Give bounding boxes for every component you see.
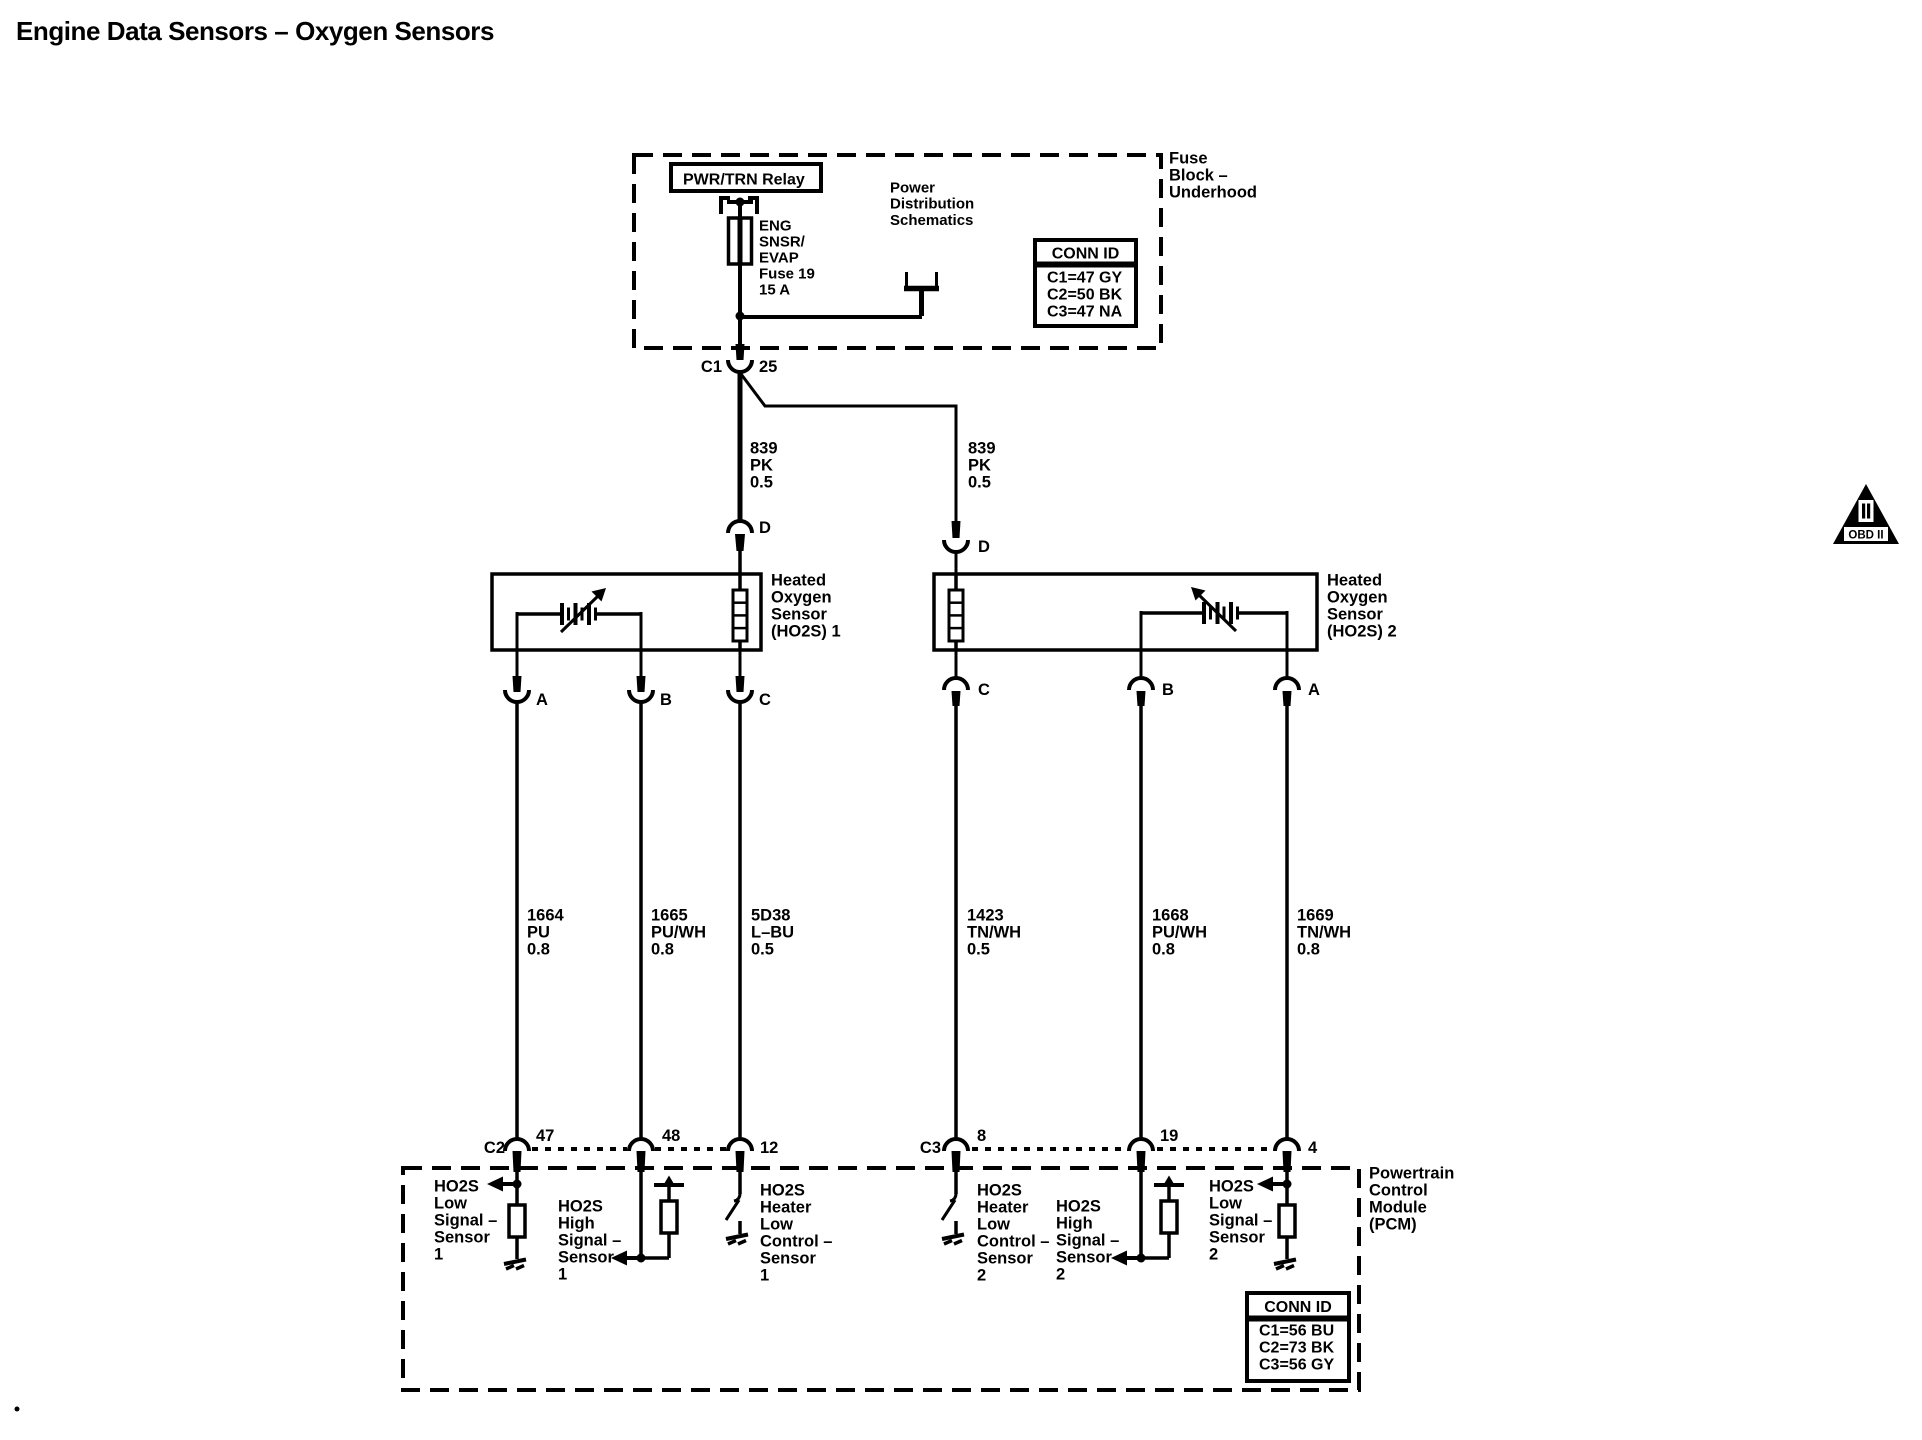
svg-text:48: 48	[662, 1127, 680, 1145]
svg-text:C3: C3	[920, 1139, 941, 1157]
svg-text:CONN ID: CONN ID	[1052, 246, 1120, 263]
connector pin 48 (PCM)	[629, 1127, 680, 1172]
label heated oxygen sensor 1	[771, 572, 841, 641]
svg-text:1669: 1669	[1297, 907, 1334, 925]
svg-text:Underhood: Underhood	[1169, 184, 1257, 202]
HO2S 2 box	[934, 574, 1317, 650]
svg-text:C1=47 GY: C1=47 GY	[1047, 270, 1122, 287]
svg-text:C3=47 NA: C3=47 NA	[1047, 304, 1123, 321]
switch (heater low control 1)	[726, 1193, 740, 1220]
label HO2S high signal sensor 2	[1056, 1198, 1119, 1284]
node junction 4	[1283, 1180, 1292, 1189]
connector pin 19 (PCM)	[1129, 1127, 1178, 1172]
node junction 48	[637, 1254, 646, 1263]
svg-text:Engine Data Sensors – Oxygen S: Engine Data Sensors – Oxygen Sensors	[16, 16, 494, 46]
connector D (HO2S 2)	[944, 521, 990, 575]
svg-text:Heated: Heated	[771, 572, 826, 590]
connector A (HO2S2)	[1275, 650, 1320, 706]
svg-text:B: B	[660, 691, 672, 709]
svg-text:Signal –: Signal –	[1209, 1212, 1272, 1230]
connector C (HO2S2)	[944, 650, 990, 706]
svg-text:47: 47	[536, 1127, 554, 1145]
conn id table (PCM)	[1247, 1293, 1349, 1381]
relay contact symbol	[721, 196, 757, 218]
svg-text:HO2S: HO2S	[1056, 1198, 1101, 1216]
wire 1664 PU	[515, 703, 519, 1140]
svg-text:Low: Low	[1209, 1195, 1242, 1213]
svg-text:Control –: Control –	[760, 1233, 832, 1251]
svg-text:5D38: 5D38	[751, 907, 790, 925]
svg-text:HO2S: HO2S	[977, 1182, 1022, 1200]
ground (heater low control 1)	[726, 1235, 748, 1245]
conn id table (fuse block)	[1035, 240, 1136, 326]
svg-text:Sensor: Sensor	[977, 1250, 1034, 1268]
ground (low signal 1)	[504, 1260, 526, 1270]
svg-text:HO2S: HO2S	[760, 1182, 805, 1200]
label wire 5D38 L-BU 0.5	[751, 907, 794, 959]
label HO2S high signal sensor 1	[558, 1198, 621, 1284]
wire 5D38 L-BU	[738, 703, 742, 1140]
connector pin 47 (PCM)	[505, 1127, 554, 1172]
label HO2S heater low control sensor 2	[977, 1182, 1049, 1285]
svg-text:Sensor: Sensor	[1209, 1229, 1266, 1247]
ground (heater low control 2)	[942, 1235, 964, 1245]
svg-text:0.8: 0.8	[651, 941, 674, 959]
label wire 1423 TN/WH 0.5	[967, 907, 1021, 959]
node junction 47	[513, 1180, 522, 1189]
svg-text:Sensor: Sensor	[760, 1250, 817, 1268]
svg-text:Sensor: Sensor	[1327, 606, 1384, 624]
voltage supply symbol (high signal 2)	[1154, 1176, 1184, 1202]
svg-text:15 A: 15 A	[759, 282, 790, 299]
svg-text:Signal –: Signal –	[558, 1232, 621, 1250]
svg-text:A: A	[536, 691, 548, 709]
svg-text:C: C	[978, 681, 990, 699]
wire pin12 internal	[738, 1172, 742, 1194]
label powertrain control module	[1369, 1165, 1454, 1234]
svg-text:(HO2S) 1: (HO2S) 1	[771, 623, 841, 641]
label wire 1665 PU/WH 0.8	[651, 907, 706, 959]
connector pin 12 (PCM)	[728, 1139, 778, 1172]
label fuse 19	[759, 218, 815, 299]
HO2S 1 box	[492, 574, 761, 650]
svg-text:SNSR/: SNSR/	[759, 234, 806, 251]
wire junction to resistor 48	[641, 1233, 669, 1258]
svg-text:8: 8	[977, 1127, 986, 1145]
wire 1668 PU/WH	[1139, 706, 1143, 1140]
fuse block underhood dashed box	[634, 155, 1161, 348]
svg-text:0.5: 0.5	[751, 941, 774, 959]
svg-text:2: 2	[977, 1267, 986, 1285]
wire pin4 internal	[1285, 1172, 1289, 1205]
wire resistor to ground 4	[1285, 1237, 1289, 1259]
svg-text:ENG: ENG	[759, 218, 792, 235]
svg-text:2: 2	[1209, 1246, 1218, 1264]
svg-text:C1=56 BU: C1=56 BU	[1259, 1323, 1334, 1340]
ground (low signal 2)	[1274, 1260, 1296, 1270]
svg-text:Block –: Block –	[1169, 167, 1228, 185]
arrow HO2S low signal 2	[1257, 1177, 1287, 1192]
svg-text:Heated: Heated	[1327, 572, 1382, 590]
dotted connector line C3	[972, 1147, 1273, 1151]
svg-text:PK: PK	[968, 457, 991, 475]
svg-text:TN/WH: TN/WH	[1297, 924, 1351, 942]
svg-text:Low: Low	[977, 1216, 1010, 1234]
svg-text:Sensor: Sensor	[1056, 1249, 1113, 1267]
svg-text:Module: Module	[1369, 1199, 1427, 1217]
wire 1665 PU/WH	[639, 703, 643, 1140]
svg-text:1: 1	[760, 1267, 769, 1285]
svg-text:(HO2S) 2: (HO2S) 2	[1327, 623, 1397, 641]
svg-text:4: 4	[1308, 1139, 1318, 1157]
title	[16, 16, 494, 46]
svg-text:1423: 1423	[967, 907, 1004, 925]
svg-text:PU: PU	[527, 924, 550, 942]
svg-text:L–BU: L–BU	[751, 924, 794, 942]
OBD II marker	[1833, 484, 1899, 544]
label heated oxygen sensor 2	[1327, 572, 1397, 641]
wire resistor to ground 47	[515, 1237, 519, 1259]
wire pin19 internal	[1139, 1172, 1143, 1258]
svg-text:0.5: 0.5	[967, 941, 990, 959]
svg-text:High: High	[558, 1215, 595, 1233]
svg-text:1: 1	[434, 1246, 443, 1264]
svg-text:0.8: 0.8	[527, 941, 550, 959]
svg-text:1664: 1664	[527, 907, 565, 925]
svg-text:25: 25	[759, 358, 777, 376]
svg-text:2: 2	[1056, 1266, 1065, 1284]
svg-text:0.8: 0.8	[1152, 941, 1175, 959]
svg-text:HO2S: HO2S	[1209, 1178, 1254, 1196]
resistor R (high signal 2)	[1161, 1201, 1177, 1233]
svg-text:D: D	[759, 519, 771, 537]
relay K PWR/TRN Relay name box	[671, 164, 821, 191]
switch (heater low control 2)	[942, 1193, 956, 1220]
svg-text:Signal –: Signal –	[1056, 1232, 1119, 1250]
svg-text:Control: Control	[1369, 1182, 1428, 1200]
svg-text:Heater: Heater	[977, 1199, 1029, 1217]
svg-text:Distribution: Distribution	[890, 196, 974, 213]
svg-text:Sensor: Sensor	[434, 1229, 491, 1247]
svg-text:HO2S: HO2S	[434, 1178, 479, 1196]
svg-text:PU/WH: PU/WH	[651, 924, 706, 942]
svg-text:1665: 1665	[651, 907, 688, 925]
ground stem 8	[954, 1221, 958, 1234]
svg-text:Fuse: Fuse	[1169, 150, 1208, 168]
wire branch diagonal	[741, 374, 956, 521]
label power distribution schematics	[890, 180, 974, 229]
svg-text:D: D	[978, 538, 990, 556]
wire fuse to C1	[738, 264, 742, 346]
connector A (HO2S1)	[505, 650, 548, 709]
wire 1669 TN/WH	[1285, 706, 1289, 1140]
svg-text:C2=73 BK: C2=73 BK	[1259, 1340, 1335, 1357]
connector C1 pin 25	[701, 344, 777, 376]
heater element HO2S2 (variable resistor)	[1141, 587, 1287, 650]
arrow HO2S high signal 2	[1111, 1251, 1141, 1266]
dotted connector line C2	[532, 1147, 726, 1151]
wire 1423 TN/WH	[954, 706, 958, 1140]
wire pin8 internal	[954, 1172, 958, 1194]
svg-text:C2: C2	[484, 1139, 505, 1157]
voltage supply symbol (high signal 1)	[654, 1176, 684, 1202]
wire junction horizontal	[740, 315, 922, 319]
svg-text:Control –: Control –	[977, 1233, 1049, 1251]
svg-text:Oxygen: Oxygen	[1327, 589, 1388, 607]
wire C1 down (left feed 839 PK)	[738, 371, 743, 522]
connector C (HO2S1)	[728, 650, 771, 709]
svg-text:Sensor: Sensor	[771, 606, 828, 624]
svg-text:Signal –: Signal –	[434, 1212, 497, 1230]
svg-text:Schematics: Schematics	[890, 212, 973, 229]
svg-text:Oxygen: Oxygen	[771, 589, 832, 607]
label C3	[920, 1139, 941, 1157]
connector D (HO2S 1)	[728, 519, 771, 575]
node junction 19	[1137, 1254, 1146, 1263]
label HO2S low signal sensor 1	[434, 1178, 497, 1264]
page dot	[15, 1407, 20, 1412]
svg-text:0.5: 0.5	[968, 474, 991, 492]
svg-text:19: 19	[1160, 1127, 1178, 1145]
svg-text:0.5: 0.5	[750, 474, 773, 492]
label HO2S low signal sensor 2	[1209, 1178, 1272, 1264]
svg-text:C2=50 BK: C2=50 BK	[1047, 287, 1123, 304]
svg-text:0.8: 0.8	[1297, 941, 1320, 959]
sensor element HO2S1	[733, 574, 747, 650]
svg-text:HO2S: HO2S	[558, 1198, 603, 1216]
node junction below fuse	[736, 312, 745, 321]
wire pin48 internal	[639, 1172, 643, 1258]
svg-text:OBD II: OBD II	[1848, 530, 1883, 542]
svg-text:A: A	[1308, 681, 1320, 699]
svg-text:Low: Low	[434, 1195, 467, 1213]
label wire 839 PK 0.5 right	[968, 440, 996, 492]
svg-text:1668: 1668	[1152, 907, 1189, 925]
label Fuse Block Underhood	[1169, 150, 1257, 202]
svg-text:PK: PK	[750, 457, 773, 475]
svg-text:12: 12	[760, 1139, 778, 1157]
svg-text:Power: Power	[890, 180, 935, 197]
svg-text:TN/WH: TN/WH	[967, 924, 1021, 942]
svg-text:(PCM): (PCM)	[1369, 1216, 1417, 1234]
connector pin 4 (PCM)	[1275, 1139, 1318, 1172]
svg-text:Sensor: Sensor	[558, 1249, 615, 1267]
svg-text:PWR/TRN Relay: PWR/TRN Relay	[683, 172, 805, 189]
svg-text:C: C	[759, 691, 771, 709]
ground stem 12	[738, 1221, 742, 1234]
wire junction to resistor 19	[1141, 1233, 1169, 1258]
PCM dashed box	[403, 1168, 1359, 1390]
svg-text:EVAP: EVAP	[759, 250, 799, 267]
svg-text:Heater: Heater	[760, 1199, 812, 1217]
svg-text:C3=56 GY: C3=56 GY	[1259, 1357, 1334, 1374]
label wire 1664 PU 0.8	[527, 907, 565, 959]
svg-text:CONN ID: CONN ID	[1264, 1299, 1332, 1316]
resistor R (low signal 2)	[1279, 1205, 1295, 1237]
svg-text:High: High	[1056, 1215, 1093, 1233]
arrow HO2S high signal 1	[611, 1251, 641, 1266]
svg-text:C1: C1	[701, 358, 722, 376]
svg-text:Fuse 19: Fuse 19	[759, 266, 815, 283]
svg-text:839: 839	[968, 440, 996, 458]
fuse F19 ENG SNSR/EVAP 15A symbol	[729, 218, 752, 264]
svg-text:1: 1	[558, 1266, 567, 1284]
svg-text:B: B	[1162, 681, 1174, 699]
label C2	[484, 1139, 505, 1157]
resistor R (low signal 1)	[509, 1205, 525, 1237]
resistor R (high signal 1)	[661, 1201, 677, 1233]
wire pin47 internal	[515, 1172, 519, 1205]
label wire 1669 TN/WH 0.8	[1297, 907, 1351, 959]
label wire 839 PK 0.5 left	[750, 440, 778, 492]
connector stub symbol	[904, 272, 939, 316]
label wire 1668 PU/WH 0.8	[1152, 907, 1207, 959]
connector pin 8 (PCM)	[944, 1127, 986, 1172]
svg-text:Low: Low	[760, 1216, 793, 1234]
svg-text:839: 839	[750, 440, 778, 458]
heater element HO2S1 (variable resistor)	[517, 588, 641, 650]
connector B (HO2S1)	[629, 650, 672, 709]
label HO2S heater low control sensor 1	[760, 1182, 832, 1285]
arrow HO2S low signal 1	[487, 1177, 517, 1192]
sensor element HO2S2	[949, 574, 963, 650]
connector B (HO2S2)	[1129, 650, 1174, 706]
svg-text:Powertrain: Powertrain	[1369, 1165, 1454, 1183]
svg-text:PU/WH: PU/WH	[1152, 924, 1207, 942]
